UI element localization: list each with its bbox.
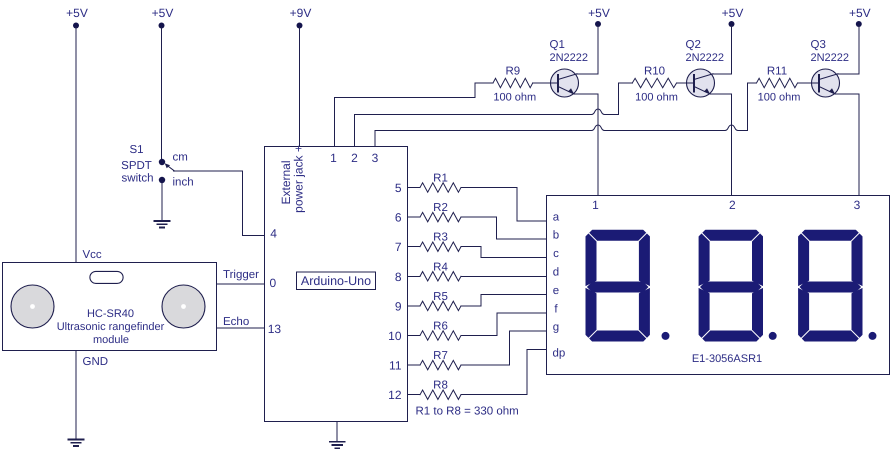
svg-text:R7: R7 — [433, 350, 448, 362]
svg-text:R5: R5 — [433, 291, 448, 303]
svg-text:R2: R2 — [433, 202, 448, 214]
svg-text:d: d — [553, 267, 559, 279]
svg-text:dp: dp — [553, 348, 566, 360]
svg-text:1: 1 — [330, 151, 337, 165]
svg-text:S1: S1 — [129, 144, 143, 156]
svg-text:R10: R10 — [644, 66, 665, 78]
svg-text:Ultrasonic rangefinder: Ultrasonic rangefinder — [57, 321, 165, 333]
svg-text:13: 13 — [268, 322, 282, 336]
svg-text:Q3: Q3 — [811, 39, 826, 51]
svg-text:e: e — [553, 285, 559, 297]
svg-text:100 ohm: 100 ohm — [758, 92, 801, 104]
svg-text:Trigger: Trigger — [223, 269, 259, 281]
svg-text:+5V: +5V — [66, 6, 88, 20]
svg-text:SPDT: SPDT — [121, 160, 152, 172]
svg-text:Q1: Q1 — [550, 39, 565, 51]
svg-text:1: 1 — [592, 198, 599, 212]
svg-text:R1: R1 — [433, 173, 448, 185]
svg-text:2N2222: 2N2222 — [811, 52, 850, 64]
svg-text:7: 7 — [395, 240, 402, 254]
svg-text:R9: R9 — [505, 66, 520, 78]
svg-text:5: 5 — [395, 181, 402, 195]
svg-text:c: c — [553, 248, 559, 260]
svg-text:HC-SR40: HC-SR40 — [87, 308, 134, 320]
svg-text:11: 11 — [389, 359, 402, 373]
svg-text:R1 to R8 = 330 ohm: R1 to R8 = 330 ohm — [416, 406, 519, 418]
svg-text:a: a — [553, 211, 560, 223]
svg-text:+5V: +5V — [849, 6, 871, 20]
svg-text:+9V: +9V — [290, 6, 312, 20]
svg-text:2: 2 — [729, 198, 736, 212]
svg-text:4: 4 — [270, 227, 277, 241]
svg-text:R3: R3 — [433, 232, 448, 244]
svg-text:R6: R6 — [433, 321, 448, 333]
svg-text:Vcc: Vcc — [83, 249, 102, 261]
svg-text:+5V: +5V — [152, 6, 174, 20]
svg-text:Q2: Q2 — [686, 39, 701, 51]
svg-text:R11: R11 — [767, 66, 787, 78]
svg-text:100 ohm: 100 ohm — [635, 92, 678, 104]
svg-text:2: 2 — [351, 151, 358, 165]
svg-text:10: 10 — [388, 329, 402, 343]
svg-text:8: 8 — [395, 270, 402, 284]
svg-text:+5V: +5V — [588, 6, 610, 20]
svg-text:12: 12 — [388, 388, 402, 402]
svg-text:cm: cm — [173, 152, 188, 164]
svg-text:R8: R8 — [433, 380, 448, 392]
svg-text:inch: inch — [173, 177, 194, 189]
svg-text:R4: R4 — [433, 261, 448, 273]
svg-text:b: b — [553, 230, 559, 242]
svg-text:100 ohm: 100 ohm — [493, 92, 536, 104]
svg-text:3: 3 — [854, 198, 861, 212]
svg-text:0: 0 — [270, 276, 277, 290]
svg-text:9: 9 — [395, 299, 402, 313]
svg-text:power jack +: power jack + — [292, 145, 306, 213]
svg-text:E1-3056ASR1: E1-3056ASR1 — [692, 353, 762, 365]
svg-text:2N2222: 2N2222 — [550, 52, 589, 64]
svg-text:6: 6 — [395, 211, 402, 225]
svg-text:Arduino-Uno: Arduino-Uno — [301, 274, 371, 288]
svg-text:module: module — [93, 334, 129, 346]
svg-text:g: g — [553, 322, 559, 334]
svg-text:GND: GND — [83, 356, 109, 368]
svg-text:+5V: +5V — [722, 6, 744, 20]
svg-text:switch: switch — [122, 173, 154, 185]
svg-text:3: 3 — [372, 151, 379, 165]
svg-text:Echo: Echo — [223, 316, 249, 328]
svg-text:2N2222: 2N2222 — [686, 52, 725, 64]
